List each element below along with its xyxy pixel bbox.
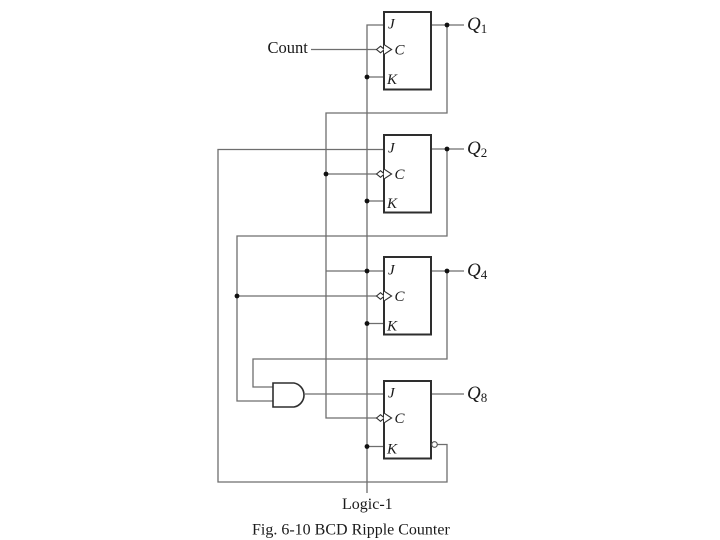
svg-text:Fig. 6-10 BCD Ripple Counter: Fig. 6-10 BCD Ripple Counter (252, 522, 450, 539)
svg-text:K: K (386, 196, 398, 212)
svg-text:K: K (386, 72, 398, 88)
svg-text:Count: Count (268, 38, 309, 57)
svg-text:C: C (395, 43, 406, 59)
svg-text:C: C (395, 167, 406, 183)
svg-text:Logic-1: Logic-1 (342, 496, 393, 513)
svg-text:C: C (395, 289, 406, 305)
svg-text:C: C (395, 411, 406, 427)
svg-text:K: K (386, 442, 398, 458)
svg-text:K: K (386, 319, 398, 335)
